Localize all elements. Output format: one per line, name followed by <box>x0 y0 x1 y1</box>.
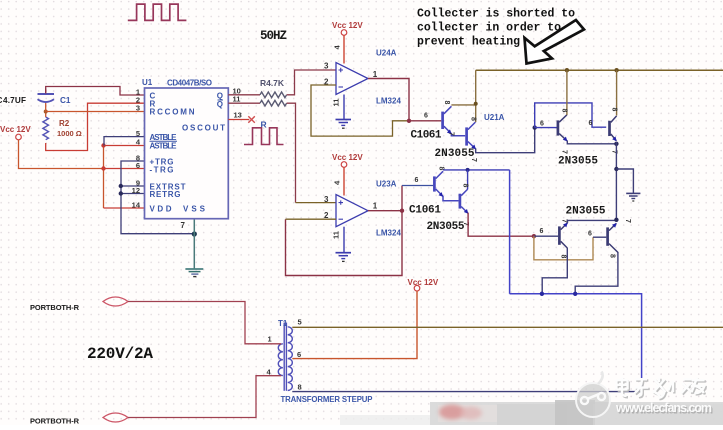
svg-text:Vcc 12V: Vcc 12V <box>332 153 363 162</box>
watermark logo circle <box>576 372 610 418</box>
svg-text:13: 13 <box>234 110 242 119</box>
node pin12 tie <box>119 191 123 195</box>
svg-text:VSS: VSS <box>183 205 206 214</box>
transistor Q7 2N3055 (bottom right pair, left; flipped) <box>558 226 561 244</box>
svg-text:11: 11 <box>332 99 341 107</box>
wire emitter bus down <box>615 142 617 220</box>
svg-text:7: 7 <box>470 158 477 162</box>
svg-text:3: 3 <box>324 62 329 71</box>
svg-text:PORTBOTH-R: PORTBOTH-R <box>30 303 80 312</box>
wire Q2 emitter to right pair bases <box>476 128 535 153</box>
transistor Q4 2N3055 (lower darlington output) <box>459 194 462 209</box>
node Vcc/pin4 <box>101 143 105 147</box>
svg-text:collecter in order to: collecter in order to <box>417 21 561 34</box>
svg-text:8: 8 <box>470 117 477 121</box>
wire output bus to transformer pin8 <box>510 294 642 392</box>
svg-text:50HZ: 50HZ <box>260 29 287 43</box>
svg-text:2N3055: 2N3055 <box>558 156 598 168</box>
wire junction to U1 pin3 <box>46 111 145 113</box>
svg-text:C1061: C1061 <box>411 130 442 142</box>
svg-text:1: 1 <box>373 202 378 211</box>
wire VSS to ground <box>193 219 195 269</box>
wire Q7 collector down to output bus <box>542 248 567 294</box>
svg-text:Collecter is shorted to: Collecter is shorted to <box>417 7 575 20</box>
svg-text:8: 8 <box>298 383 302 392</box>
wire transformer pin5 to right edge (olive) <box>292 326 723 328</box>
svg-text:3: 3 <box>324 195 329 204</box>
node Vcc/pin6 <box>101 166 105 170</box>
node base tie Q5/Q6 <box>533 125 537 129</box>
svg-text:7: 7 <box>181 221 186 230</box>
ground (U1 VSS) <box>185 268 203 270</box>
svg-text:2N3055: 2N3055 <box>435 148 475 160</box>
svg-text:RCCOMN: RCCOMN <box>150 108 195 117</box>
wire Q7 emitter to bus <box>568 220 617 223</box>
node U24A output junction <box>407 119 411 123</box>
node emitter bus bottom <box>614 218 618 222</box>
node VSS junction <box>192 231 197 236</box>
wire U24A feedback to -in <box>311 85 409 136</box>
svg-text:5: 5 <box>298 318 302 327</box>
svg-text:8: 8 <box>561 109 568 113</box>
wire Vcc to U23A pin4 <box>343 167 345 195</box>
wire U23A pin11 to ground <box>343 227 345 253</box>
wire U23A output <box>368 210 402 212</box>
svg-text:8: 8 <box>560 255 567 259</box>
wire R4.7K to U24A +in <box>287 70 336 95</box>
resistor R4.7K (upper) <box>260 92 287 98</box>
svg-text:6: 6 <box>136 161 140 170</box>
transformer primary winding <box>278 344 283 376</box>
wire U1 pin12 stub <box>121 193 145 195</box>
svg-text:LM324: LM324 <box>376 97 401 106</box>
wire U1 pin9 stub <box>121 185 145 187</box>
bottom blur band (censored area) <box>340 400 723 425</box>
svg-text:11: 11 <box>233 95 241 104</box>
node C1/R2/pin3 junction <box>44 110 48 114</box>
svg-text:7: 7 <box>624 219 631 223</box>
svg-text:U21A: U21A <box>484 113 505 122</box>
transformer secondary winding <box>288 327 293 391</box>
node emitter join <box>614 142 618 146</box>
svg-text:PORTBOTH-R: PORTBOTH-R <box>30 417 80 426</box>
transistor Q6 2N3055 (top right pair, right) <box>608 121 611 136</box>
svg-text:11: 11 <box>332 231 341 239</box>
square-wave symbol (OSCOUT waveform) <box>244 128 284 145</box>
resistor R (lower 4.7K) <box>260 100 287 106</box>
wire ground tap <box>616 169 633 193</box>
wire base net to Q5 <box>535 127 558 129</box>
svg-text:5: 5 <box>136 129 140 138</box>
wire Q4 emitter to lower pair bases <box>468 213 534 236</box>
svg-text:8: 8 <box>609 254 616 258</box>
svg-text:4.7UF: 4.7UF <box>3 96 26 105</box>
wire Q5/Q6 emitters join <box>567 141 616 144</box>
IC U1 CD4047B/SO body <box>145 88 229 219</box>
wire Q1 collector to rail vertical <box>451 104 475 106</box>
svg-text:6: 6 <box>540 121 544 128</box>
transformer T1 core <box>283 323 285 391</box>
svg-text:ASTBLE: ASTBLE <box>150 141 178 150</box>
wire port to transformer pin1 <box>128 302 281 344</box>
capacitor C1 <box>38 93 55 95</box>
wire U1 pin2 to R2 bottom <box>46 103 145 150</box>
svg-text:1: 1 <box>373 70 378 79</box>
wire transformer pin8 horizontal <box>292 391 641 393</box>
svg-text:CD4047B/SO: CD4047B/SO <box>167 79 212 88</box>
svg-text:2N3055: 2N3055 <box>427 221 465 233</box>
op-amp U23A <box>336 195 368 227</box>
transistor Q2 2N3055 (upper darlington output) <box>465 127 468 145</box>
svg-text:Q: Q <box>217 100 223 109</box>
node bus/Q7 <box>540 292 544 296</box>
svg-text:7: 7 <box>448 132 455 136</box>
svg-text:-TRG: -TRG <box>150 166 174 175</box>
svg-text:3: 3 <box>136 104 140 113</box>
wire base detour to Q8 (tan) <box>534 236 593 260</box>
svg-text:U23A: U23A <box>376 180 397 189</box>
svg-text:6: 6 <box>297 350 301 359</box>
transistor Q8 2N3055 (bottom right pair, right; flipped) <box>606 227 609 245</box>
wire Q6 collector to rail <box>616 70 618 115</box>
wire U1 pin5 tied to pin4 <box>104 137 145 146</box>
svg-text:R4.7K: R4.7K <box>260 78 285 88</box>
node pin9 tie <box>119 184 123 188</box>
wire Q3/Q4 collectors to output net <box>443 169 510 171</box>
wire U24A output <box>368 79 409 121</box>
wire U1 pin8 to VSS rail <box>121 161 194 234</box>
svg-text:7: 7 <box>561 150 568 154</box>
wire lower resistor to U23A +in <box>287 103 296 202</box>
svg-text:C1: C1 <box>60 96 71 105</box>
ground (U24A) <box>336 119 352 121</box>
svg-text:Vcc 12V: Vcc 12V <box>408 278 439 287</box>
svg-text:T1: T1 <box>278 319 288 328</box>
wire Q8 collector down to output bus <box>575 252 618 294</box>
svg-text:TRANSFORMER STEPUP: TRANSFORMER STEPUP <box>281 395 373 404</box>
wire Vcc to U24A pin4 <box>343 35 345 63</box>
transistor Q5 2N3055 (top right pair, left) <box>557 120 560 135</box>
svg-text:1000 Ω: 1000 Ω <box>57 129 82 138</box>
wire U1 pin13 OSCOUT stub <box>228 119 249 121</box>
wire base net up-over to Q6 <box>535 103 607 128</box>
svg-text:prevent heating: prevent heating <box>417 35 520 48</box>
svg-text:Vcc 12V: Vcc 12V <box>0 125 31 134</box>
svg-text:2N3055: 2N3055 <box>566 206 606 218</box>
wire port to transformer pin4 <box>128 376 281 418</box>
node lower base tie <box>532 234 536 238</box>
wire Q5 collector to rail <box>566 70 568 115</box>
wire U1 pin11 to lower resistor <box>228 102 260 104</box>
ground (emitter bus) <box>626 192 640 194</box>
node Q3/Q4 collector tee <box>466 168 470 172</box>
svg-text:6: 6 <box>540 228 544 235</box>
node rail/Q5 collector <box>565 68 569 72</box>
svg-text:6: 6 <box>415 177 419 184</box>
node rail/Q6 collector <box>614 68 618 72</box>
svg-text:12: 12 <box>132 186 140 195</box>
transistor Q3 C1061 (lower darlington driver) <box>433 176 436 191</box>
node U23A output junction <box>400 209 404 213</box>
svg-text:U1: U1 <box>142 78 153 87</box>
op-amp U24A <box>336 63 368 95</box>
ground (U23A) <box>336 252 352 254</box>
svg-text:8: 8 <box>462 184 469 188</box>
node ground tap <box>614 167 618 171</box>
svg-text:1: 1 <box>268 335 272 344</box>
svg-text:VDD: VDD <box>150 205 172 214</box>
wire U24A pin11 to ground <box>343 95 345 120</box>
node bus/Q8 <box>573 292 577 296</box>
wire U1 pin10 to R4.7K <box>228 94 260 96</box>
svg-text:6: 6 <box>424 113 428 120</box>
svg-text:6: 6 <box>588 231 592 238</box>
wire U23A output to Q3 base <box>402 185 433 187</box>
wire C1 top to U1 pin1 <box>46 87 145 96</box>
svg-text:8: 8 <box>611 108 618 112</box>
svg-text:U24A: U24A <box>376 49 397 58</box>
wire output net: vertical from darlington collectors <box>509 170 511 294</box>
wire U23A output vertical / feedback <box>286 186 403 276</box>
svg-text:2: 2 <box>324 211 329 220</box>
big hollow arrow pointing to transistors <box>525 20 585 64</box>
collector supply rail (top) <box>476 69 723 71</box>
watermark CJK text (approximated strokes) <box>618 379 707 399</box>
wire Vcc to transformer pin6 <box>292 291 417 359</box>
wire U24A output to Q1 base <box>409 120 441 122</box>
node Q1 collector tee <box>474 102 478 106</box>
svg-text:www.elecfans.com: www.elecfans.com <box>615 401 712 415</box>
svg-text:7: 7 <box>561 219 568 223</box>
wire base to Q7 <box>534 235 558 237</box>
svg-text:14: 14 <box>132 200 141 209</box>
svg-text:C1061: C1061 <box>409 205 441 217</box>
svg-text:RETRG: RETRG <box>150 190 181 199</box>
no-connect X on pin13 <box>248 116 255 123</box>
svg-text:6: 6 <box>589 120 593 127</box>
wire Vcc to pins 4/6/14 <box>19 140 104 169</box>
svg-text:220V/2A: 220V/2A <box>87 345 153 363</box>
square-wave symbol (oscillator output waveform) <box>128 4 187 20</box>
svg-text:LM324: LM324 <box>376 229 401 238</box>
resistor R2 <box>43 117 49 140</box>
svg-text:R2: R2 <box>59 119 70 128</box>
svg-text:8: 8 <box>443 101 450 105</box>
svg-text:Vcc 12V: Vcc 12V <box>332 21 363 30</box>
transistor Q1 C1061 (upper darlington driver) <box>441 112 444 129</box>
